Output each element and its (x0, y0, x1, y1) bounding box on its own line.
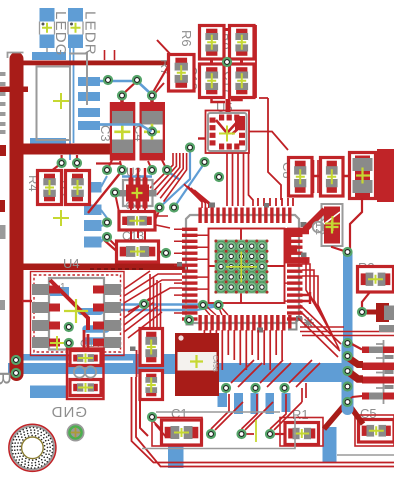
wire via402 to SV1 pad4 (348, 396, 363, 402)
wire R7 left edge trace (155, 83, 164, 93)
wire blue bus stub lower-left (30, 386, 67, 399)
via V12 (162, 165, 172, 175)
wire bundle diagonals over bus row1 (231, 360, 320, 387)
capacitor C9 (119, 212, 155, 231)
wire via362 to block (362, 310, 378, 315)
via V17 (199, 157, 209, 167)
wire C9 right to QFP left (155, 216, 170, 228)
wire R1 left to via (274, 433, 285, 435)
resistor R1 outer box (280, 418, 323, 447)
wire U2 bottom to C13 (131, 208, 145, 241)
board corner bracket top-left (8, 53, 24, 59)
wire R3 to via362 (362, 292, 370, 311)
via V32 (342, 351, 352, 361)
wire blue stub left 2 (78, 92, 100, 101)
wire thick hook right of U3 (285, 208, 327, 264)
wire thick Y from via347-402 (324, 402, 363, 429)
wire blue diag from via167 (167, 171, 180, 180)
via V34 (342, 381, 352, 391)
wire blue stub 1 below bus (218, 393, 228, 407)
wire red vertical pair x136 (136, 350, 138, 377)
IC U5 pin1 diagonals (216, 120, 239, 134)
via V3 (117, 90, 127, 100)
wire blue U4 mid (81, 308, 100, 315)
IC U4 right pads (93, 284, 121, 348)
IC U5 pad big top-right (235, 116, 245, 130)
wire blue stub 2 below bus (234, 393, 243, 414)
connector SV1 silk (376, 340, 384, 404)
via V5 (147, 126, 157, 136)
via V39 (279, 383, 289, 393)
wire blue U2 top (122, 175, 152, 177)
capacitor C4 (140, 102, 166, 161)
via V16 (185, 142, 195, 152)
wire diag above R7 (157, 40, 173, 57)
IC U2 body and pads (119, 178, 157, 209)
wire via152 to C4 bottom (148, 160, 167, 170)
IC U3 top pads (198, 208, 291, 224)
resistor R3a (66, 171, 90, 205)
wire C12 to via (332, 198, 362, 251)
wire hook lower right of U3 (302, 292, 310, 304)
via V30 (342, 247, 352, 257)
capacitor C10 (321, 158, 344, 197)
wire U3 thermal stubs (209, 228, 285, 303)
capacitor C5 (359, 420, 394, 443)
connector SV1 pad 1 (362, 347, 394, 354)
wire C13 to via166 (158, 252, 166, 254)
wire blue over C3 band (100, 125, 152, 132)
wire blue vertical trace right (343, 252, 353, 413)
IC U3 left pads (182, 228, 198, 321)
via V26 (64, 322, 74, 332)
silk circle near hook (313, 222, 324, 233)
via V42 (265, 429, 275, 439)
wire blue stub bottom right (323, 427, 337, 462)
wire blue between QFP vias (203, 304, 218, 306)
gray tick marks around U3 (130, 203, 307, 352)
capacitor group below U4 outer box (67, 349, 104, 400)
origin cross U4 small (50, 336, 64, 350)
wire blue stub left 1 (78, 77, 100, 86)
wire under caps horizontal (96, 162, 121, 164)
via V14 (154, 202, 164, 212)
capacitor C3 (110, 102, 136, 161)
via V19 (102, 217, 112, 227)
resistor R3 (358, 267, 394, 293)
wire U5 feed from cluster (212, 95, 242, 102)
wire long diagonal bar to via122 (88, 172, 121, 213)
wire C1 to via152 (152, 420, 166, 437)
wire blue stub left 4 (78, 121, 100, 130)
wire blue stub below C1 (168, 444, 184, 468)
wire blue stub 3 below bus (251, 393, 259, 414)
wire left power bar (10, 59, 24, 374)
capacitor C2 (175, 333, 219, 396)
wire QFP left pad stubs (174, 229, 182, 313)
wire diagonals to blue column (298, 305, 341, 357)
wire red verticals under LED area (105, 50, 115, 60)
via V9 (102, 165, 112, 175)
silk line y412 (156, 411, 280, 413)
wire via343 to SV1 pad1 (350, 343, 362, 350)
capacitor C12 (322, 204, 343, 246)
wire links rows 388-434 (211, 394, 286, 429)
resistor R4 (38, 171, 62, 205)
via V20 (102, 232, 112, 242)
wire via137 to C3 via (123, 81, 137, 94)
wire via152 to C4 top (150, 96, 154, 104)
inductor silk circles (74, 366, 96, 377)
wire U3 pad links left (198, 235, 209, 307)
via V8 (222, 57, 232, 67)
via V1 (103, 75, 113, 85)
wire blue diag via204 to via174 (174, 163, 205, 208)
capacitor C11 big (350, 149, 394, 202)
via V37 (221, 383, 231, 393)
wire verticals near via284 (302, 383, 306, 402)
wire C8 cluster links (312, 175, 349, 177)
IC U5 QFN outline red (206, 111, 250, 154)
wire bundle U5 bottom to QFP top (227, 153, 253, 206)
wire U4 vertical to bottom (84, 330, 88, 356)
via V21 (161, 248, 171, 258)
connector SV1 pad 3 (362, 377, 394, 384)
wire C9 to via174 (155, 209, 160, 220)
wire triple horizontal right (300, 327, 394, 336)
wire U4 diagonal (50, 280, 88, 330)
wire blue trace stub1 to vias (100, 80, 133, 83)
via V15 (169, 202, 179, 212)
wire blue over C3 to via (78, 125, 152, 132)
via V10 (117, 165, 127, 175)
capacitor C1 outer box (152, 418, 202, 447)
IC U4 dashed box (31, 272, 125, 356)
capacitor C15 (140, 329, 163, 366)
via V7 (72, 158, 82, 168)
svg-text:C498: C498 (211, 355, 218, 372)
LED LEDG pads (40, 8, 55, 48)
wire double line vertical and bottom rails (132, 377, 394, 467)
via V40 (206, 429, 216, 439)
wire horizontal trace y266 (22, 264, 188, 271)
IC U5 pads (210, 115, 246, 150)
svg-text:LEDG: LEDG (52, 11, 69, 57)
resistor R8 (230, 26, 255, 60)
wire blue stub left 3 (78, 108, 100, 117)
IC U3 bottom pads (198, 315, 291, 331)
silk wire to U2 area (69, 54, 87, 106)
wire R7 to C4 via (152, 63, 170, 94)
silk line right bottom (337, 454, 394, 456)
wire horizontal trace y148 (22, 144, 111, 155)
origin cross mid-left (53, 210, 69, 226)
svg-text:GND: GND (51, 404, 87, 421)
via V36 (357, 307, 367, 317)
svg-text:R6: R6 (179, 30, 194, 47)
IC U4 left pads (32, 284, 60, 348)
asterisk mark U3 pin1 (303, 317, 314, 328)
wire blue stub 5 below bus (282, 393, 291, 412)
via V31 (342, 338, 352, 348)
via V28 (11, 355, 21, 365)
capacitor C16 (140, 371, 163, 400)
via V6 (57, 158, 67, 168)
origin cross right of C12 (325, 216, 340, 231)
silk gray line from LEDG (46, 48, 48, 52)
svg-text:U4: U4 (63, 256, 80, 271)
wire bundle down to QFP top-left (184, 184, 212, 208)
resistor R6 (200, 26, 225, 60)
wire via115 to C9 (115, 193, 119, 212)
wire blue bus merged mid (133, 354, 177, 374)
wire blue bus right of C2 (218, 363, 352, 382)
wire blue long line to QFP via1 (103, 303, 202, 305)
wire blue stub mid-left C (84, 220, 102, 231)
wire U3 inner ring (209, 229, 285, 304)
pad block right mid (376, 303, 394, 322)
mounting hole H1 (9, 424, 56, 471)
wire R6 R8 interconnect (212, 30, 242, 65)
via V11 (147, 165, 157, 175)
via V33 (342, 366, 352, 376)
wire blue long line to QFP via2 (103, 306, 218, 310)
silk line bottom connecting stubs (142, 417, 295, 449)
wire bundle U3 bottom fanout (204, 330, 282, 370)
LED LEDR pads (68, 8, 83, 48)
origin cross USB (53, 93, 69, 109)
via V4 (147, 90, 157, 100)
IC U5 QFN body (208, 113, 247, 151)
via V18 (214, 172, 224, 182)
via GND test point (67, 424, 85, 442)
svg-text:LEDR: LEDR (82, 11, 99, 56)
wire bundle right of U4 verticals (150, 274, 161, 348)
IC U3 QFP outline (186, 215, 299, 323)
wire blue bus left upper (18, 354, 134, 361)
wire via107-237 to C13 (107, 237, 122, 252)
wire blue links stubs to vias (101, 176, 107, 242)
wire bundle U4 to QFP left (124, 271, 182, 312)
wire blue diagonal via to C4 center (137, 81, 151, 94)
wire blue bus left lower (8, 363, 134, 374)
resistor R1 (285, 423, 319, 445)
wire via122 to C3 top (120, 96, 124, 104)
wire U3 fan to inner vias (204, 306, 228, 315)
wire wedge via to SV1 pad3 (348, 372, 363, 380)
wire wedge via to SV1 pad2 (348, 358, 363, 365)
resistor R7 (169, 55, 195, 92)
wire bar to R4 vias (62, 155, 77, 163)
wire C13 left to via104 (104, 240, 117, 252)
wire bar stub y89 (0, 87, 28, 93)
origin cross U4 (64, 299, 88, 323)
via V27 (64, 338, 74, 348)
gray corner U3 bottom-left (186, 318, 194, 326)
capacitor C7 (70, 380, 101, 396)
wire blue stub mid-left B (84, 205, 102, 216)
wire U3 pad links right (285, 241, 288, 301)
wire U5 right exit (249, 132, 288, 151)
wire bundle U4 lower diagonals (124, 298, 162, 338)
capacitor C6 (70, 351, 101, 366)
wire blue vertical to via pair (62, 155, 77, 162)
wire bundle QFP top to C8 (258, 198, 293, 206)
capacitor C17 (230, 64, 255, 98)
via V2 (132, 75, 142, 85)
wire blue rect under LEDG (32, 52, 66, 60)
wire blue U4 top stub (50, 287, 69, 296)
wire blue stub mid-left A (85, 182, 102, 193)
via V35 (342, 397, 352, 407)
wire bundle U3 right fanout (302, 258, 339, 349)
USB connector outline U1 (37, 67, 71, 141)
capacitor C8 (289, 158, 313, 197)
via V23 (198, 300, 208, 310)
wire tick marks on y266 trace (90, 268, 143, 270)
via V25 (184, 315, 194, 325)
wire C8 cluster keepout (314, 160, 319, 193)
svg-text:U2: U2 (126, 165, 142, 179)
wire C1 bottom stub (140, 400, 148, 436)
wire R4 via feeds (50, 163, 77, 172)
IC U2 outline (123, 180, 153, 206)
wire U5 left exit (198, 137, 206, 139)
capacitor C18 (200, 64, 225, 98)
wire blue U4 low1 (86, 325, 106, 333)
wire blue stub mid-left D (84, 237, 102, 248)
IC U3 right pads (287, 228, 303, 321)
wire cluster down right trace (256, 25, 281, 200)
via V43 (147, 412, 157, 422)
wire bundle U2 to U5 diagonals (150, 153, 187, 202)
wire cluster to via227 (222, 61, 232, 63)
IC U4 body outline (49, 278, 104, 350)
wire blue U4 low2 (86, 337, 106, 345)
wire top horizontal trace (17, 61, 170, 66)
wire U2 top feed (131, 168, 145, 178)
wire blue stadium over via column (342, 339, 354, 415)
connector SV1 pad 4 (362, 393, 394, 400)
via V29 (11, 368, 21, 378)
via V41 (236, 429, 246, 439)
lime mark near via256 (255, 420, 257, 442)
capacitor C1 (162, 420, 202, 445)
capacitor C13 (117, 241, 159, 262)
gray piece below block (379, 325, 394, 332)
connector SV1 pad 2 (362, 363, 394, 371)
edge connector marks left (0, 72, 6, 310)
via V22 (139, 299, 149, 309)
wire blue vertical pair from LEDR (70, 48, 74, 160)
connector SV1 gray pads (369, 347, 394, 400)
capacitor C5 outer box (355, 415, 394, 446)
IC U3 thermal pad (214, 240, 268, 294)
wire U4 left entry (22, 300, 32, 302)
origin cross U5 (219, 126, 235, 142)
via V24 (213, 300, 223, 310)
wire via107 to C3 bottom (107, 160, 122, 170)
wire blue rect below USB (30, 138, 66, 148)
corner bracket U3 bottom-right (288, 321, 297, 330)
via V38 (250, 383, 260, 393)
wire blue stub 4 below bus (266, 393, 275, 414)
via V13 (110, 187, 120, 197)
wire blue from U5 via down-left (160, 149, 190, 207)
wire bundle diagonals row2 (215, 402, 302, 434)
